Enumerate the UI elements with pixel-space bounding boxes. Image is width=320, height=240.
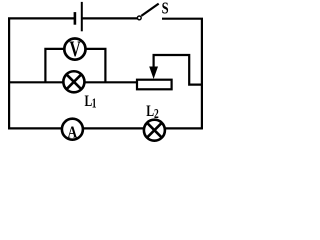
switch S [137,4,158,20]
wire rheostat wiper to right side [154,55,202,85]
rheostat R [137,67,172,90]
svg-text:V: V [69,38,80,62]
battery [75,2,82,31]
svg-text:2: 2 [154,108,159,122]
wire top-middle (battery to switch) [82,17,138,19]
wire top-right and right side [162,19,202,130]
lamp L1 [63,71,84,92]
wire top-left and left side [9,18,75,128]
lamp L2 [144,120,165,141]
svg-text:1: 1 [92,97,97,111]
svg-text:L: L [146,102,154,120]
wire middle branch [8,81,137,83]
svg-text:S: S [162,0,169,18]
label L2 [146,102,159,121]
label L1 [85,93,97,111]
wire voltmeter parallel box [45,49,105,82]
ammeter A [62,119,83,142]
wire bottom [8,127,203,129]
svg-text:A: A [67,123,77,142]
voltmeter U1 [64,38,85,62]
